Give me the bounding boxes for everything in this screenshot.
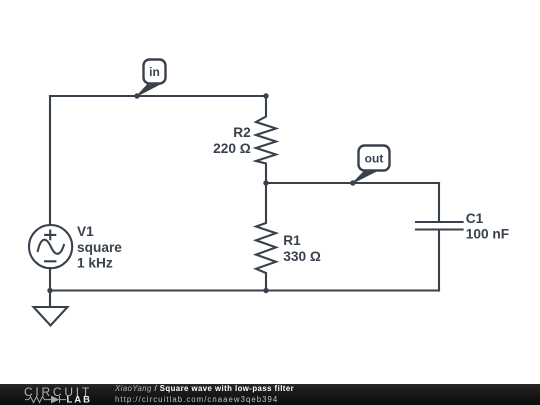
- svg-text:out: out: [365, 152, 384, 166]
- wire bottom rail: [50, 289, 439, 291]
- node gnd: [47, 288, 52, 293]
- ground: [34, 291, 68, 326]
- wire C1 top: [438, 183, 440, 221]
- svg-text:100 nF: 100 nF: [466, 227, 509, 242]
- node in: [134, 93, 139, 98]
- node R1 bottom: [263, 288, 268, 293]
- wire out node to C1: [266, 182, 439, 184]
- svg-text:square: square: [77, 240, 122, 255]
- svg-text:C1: C1: [466, 211, 484, 226]
- resistor R2: [256, 96, 276, 183]
- logo squiggle+diode: [25, 396, 66, 403]
- svg-text:R1: R1: [283, 233, 301, 248]
- svg-text:R2: R2: [233, 125, 251, 140]
- wire left vertical to V1: [49, 96, 51, 225]
- wire top rail: [50, 95, 266, 97]
- wire V1 bottom to rail: [49, 268, 51, 291]
- capacitor C1: [416, 222, 463, 230]
- svg-text:330 Ω: 330 Ω: [283, 249, 321, 264]
- flag out tail: [353, 171, 378, 184]
- wire C1 bottom: [438, 231, 440, 291]
- flag in tail: [137, 84, 161, 97]
- voltage source V1: [29, 225, 72, 268]
- svg-text:in: in: [149, 65, 160, 79]
- svg-text:220 Ω: 220 Ω: [213, 141, 251, 156]
- flag out box: [359, 146, 390, 171]
- svg-text:1 kHz: 1 kHz: [77, 255, 113, 270]
- svg-text:http://circuitlab.com/cnaaew3q: http://circuitlab.com/cnaaew3qeb394: [115, 395, 278, 404]
- flag in box: [144, 60, 166, 84]
- svg-text:V1: V1: [77, 224, 94, 239]
- resistor R1: [256, 183, 276, 291]
- node R2-R1 junction: [263, 180, 268, 185]
- node R2 top: [263, 93, 268, 98]
- svg-text:XiaoYang / Square wave with lo: XiaoYang / Square wave with low-pass fil…: [114, 384, 294, 393]
- svg-text:LAB: LAB: [67, 395, 93, 405]
- node out: [350, 180, 355, 185]
